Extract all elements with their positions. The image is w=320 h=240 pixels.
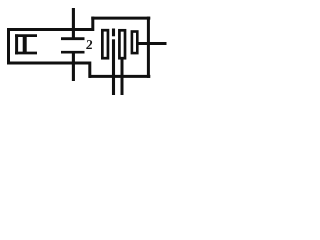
enclosure box: bottom side (89, 75, 150, 78)
wire: output lead to the right (138, 42, 167, 45)
crystal holder: left electrode plate (hollow rectangle) (102, 30, 108, 58)
crystal X1: quartz slab lower segment continuing as pin 1 (112, 39, 115, 95)
enclosure box: top side (91, 17, 150, 20)
electrode component E1: center slab (23, 36, 27, 53)
electrode component E1: left vertical bar (15, 34, 18, 54)
enclosure box: right wall (147, 17, 150, 78)
air-gap electrode plate (narrow hollow rectangle) (132, 32, 137, 54)
label 2: reference numeral for crystal unit (85, 37, 93, 53)
electrode component E1: top plate (15, 34, 37, 37)
enclosure box: upper left wall segment (91, 17, 94, 31)
capacitor C1: top plate (61, 37, 85, 40)
electrode component E1: bottom plate (15, 52, 37, 55)
capacitor C1: top lead (72, 8, 75, 39)
crystal holder: right electrode plate (hollow rectangle) (119, 30, 125, 58)
capacitor C1: bottom lead (72, 52, 75, 81)
wire: left wall of left loop (7, 28, 10, 65)
wire: vertical link from bottom wire down to box bottom (88, 62, 91, 78)
capacitor C1: bottom plate (61, 51, 85, 54)
wire: bottom wire of left loop (7, 62, 91, 65)
wire: top wire of left loop (7, 28, 94, 31)
crystal holder: pin 2 lead from right electrode (121, 58, 124, 95)
crystal X1: quartz slab upper segment (112, 29, 115, 37)
